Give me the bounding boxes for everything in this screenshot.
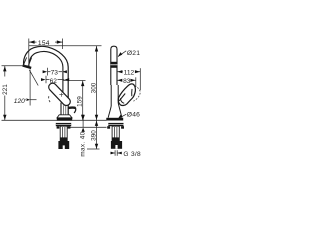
lever inner edge lines	[119, 94, 125, 101]
max40 arrows (down above top line, down at bottom line)	[81, 115, 84, 120]
112 arrows	[117, 70, 122, 73]
side screws (left)	[57, 126, 60, 128]
dim 221 line	[4, 66, 6, 77]
dim G3/8 ticks	[114, 150, 116, 156]
dim 154 extension lines	[28, 39, 30, 66]
svg-text:300: 300	[91, 82, 98, 93]
300 bottom arrow (down)	[95, 115, 98, 120]
154 arrows	[29, 40, 34, 43]
dim 73 line + tick	[47, 68, 49, 76]
hose coupling block (left)	[58, 141, 69, 149]
washer bar below counter (right)	[108, 123, 123, 126]
threaded shank (left)	[60, 126, 67, 141]
svg-text:max. 40: max. 40	[80, 131, 87, 156]
73 arrows	[43, 70, 48, 73]
159 arrows	[81, 81, 84, 86]
body column left edge below handle (left view)	[60, 103, 62, 115]
O21 arrow	[118, 52, 123, 57]
ext line 159-top	[63, 80, 86, 82]
svg-text:73: 73	[51, 69, 59, 76]
spout tip edges	[24, 57, 32, 65]
ext line 221-top	[2, 65, 30, 67]
svg-text:120°: 120°	[14, 97, 28, 105]
dim 62 line + tick	[45, 76, 47, 84]
side screws (right)	[107, 126, 110, 129]
O46 arrow	[118, 114, 123, 119]
leader O46	[118, 114, 126, 118]
83 arrows	[117, 79, 122, 82]
221 arrows	[3, 66, 6, 71]
ext line 300-top	[29, 45, 102, 47]
svg-text:159: 159	[77, 96, 84, 107]
G3/8 arrows	[111, 152, 115, 155]
svg-text:154: 154	[38, 40, 50, 47]
spout tip aerator face	[22, 64, 31, 69]
handle lever (right view)	[118, 84, 135, 106]
svg-text:112: 112	[124, 70, 135, 77]
washer bar below counter (left)	[56, 123, 71, 126]
svg-text:G 3/8: G 3/8	[123, 151, 141, 158]
dim 83 line + ext	[135, 77, 137, 87]
62 arrows	[41, 78, 46, 81]
body cone to base	[108, 103, 122, 118]
handle pivot cross	[59, 93, 63, 97]
aerator band	[110, 62, 117, 68]
mounting surface line	[2, 119, 107, 121]
counter bottom line	[69, 126, 107, 128]
svg-text:Ø46: Ø46	[127, 111, 140, 118]
leader O21	[118, 51, 126, 57]
svg-text:62: 62	[50, 78, 58, 85]
dim 154 line	[29, 41, 37, 43]
390 top arrow (up)	[95, 121, 98, 126]
handle lever capsule (left view)	[47, 82, 72, 108]
dim 120deg leader lines	[29, 70, 31, 106]
cartridge stem lines (left view)	[63, 105, 65, 114]
120deg arrow	[27, 99, 30, 101]
dim 159 line	[82, 81, 84, 121]
svg-text:390: 390	[91, 130, 98, 141]
base flange (left view)	[57, 115, 72, 118]
arrowheads	[3, 40, 140, 154]
hose coupling block (right)	[111, 141, 122, 149]
base bar (right view)	[106, 118, 123, 121]
label 154	[37, 39, 55, 45]
390 bottom arrow (down)	[95, 144, 98, 149]
dim 112 line + ext	[139, 68, 141, 90]
spout column	[111, 46, 117, 85]
svg-text:Ø21: Ø21	[127, 50, 140, 57]
spout swan-neck outer edge	[24, 46, 69, 115]
handle tip hook (side profile)	[68, 106, 75, 109]
svg-text:221: 221	[2, 84, 9, 95]
spout swan-neck inner edge	[29, 51, 63, 103]
lever swing dashed arc	[133, 86, 140, 101]
dim 300-390 line	[96, 46, 98, 149]
cartridge housing	[111, 85, 118, 106]
300 top arrow (up)	[95, 46, 98, 51]
svg-text:83: 83	[123, 78, 131, 85]
ext line 390-bottom	[87, 148, 100, 150]
handle swivel dashed arc	[49, 96, 52, 103]
dim max40 line	[82, 115, 84, 128]
threaded shank (right)	[112, 126, 119, 141]
